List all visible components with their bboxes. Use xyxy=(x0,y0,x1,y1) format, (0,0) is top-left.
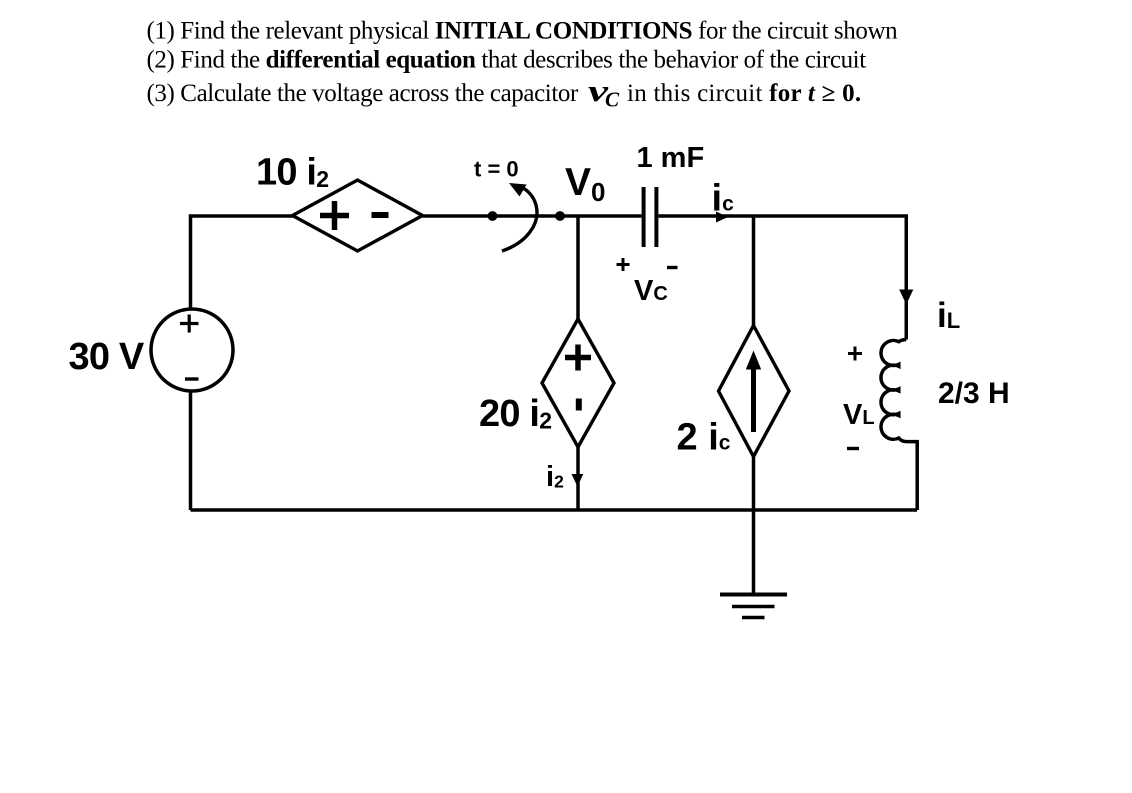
F1 arrow shaft xyxy=(751,368,756,432)
V1 minus sign xyxy=(185,377,199,380)
bottom wire xyxy=(191,508,918,512)
wire top-left corner and left wire upper xyxy=(191,216,295,308)
wire below E2 xyxy=(576,447,580,510)
switch arc t=0 xyxy=(502,187,537,252)
capacitor polarity minus xyxy=(667,266,678,269)
ground bar 3 xyxy=(742,616,765,620)
wire top right segment xyxy=(659,216,907,340)
ground bar 2 xyxy=(732,605,775,609)
current arrow ic on top wire xyxy=(716,212,728,223)
switch arrowhead xyxy=(509,183,527,197)
ground bar 1 xyxy=(720,593,787,597)
node dot V0 xyxy=(555,211,565,221)
wire top middle xyxy=(423,214,642,218)
independent voltage source V1 30 V xyxy=(151,309,233,391)
branch wire to 2ic source xyxy=(752,216,756,326)
math symbol vC xyxy=(588,74,620,111)
node dot A xyxy=(488,211,498,221)
svg-text:t = 0: t = 0 xyxy=(474,157,519,182)
svg-text:30 V: 30 V xyxy=(69,336,145,378)
ground stub wire xyxy=(752,510,756,594)
svg-text:in this circuit for t ≥ 0.: in this circuit for t ≥ 0. xyxy=(627,80,861,107)
E2 plus sign xyxy=(565,345,591,371)
current arrow iL on right wire xyxy=(899,290,913,305)
branch wire to 20i2 source xyxy=(576,216,580,320)
inductor polarity minus xyxy=(847,447,859,450)
svg-text:C: C xyxy=(605,88,620,112)
V1 plus sign xyxy=(180,315,199,333)
E1 minus sign xyxy=(372,212,389,218)
E2 minus bar xyxy=(576,399,582,411)
wire below F1 xyxy=(752,457,756,511)
svg-text:2/3 H: 2/3 H xyxy=(938,377,1010,410)
current arrow i2 xyxy=(572,474,584,487)
F1 arrowhead xyxy=(746,351,761,370)
left wire lower xyxy=(189,392,193,511)
capacitor C1 left plate xyxy=(642,187,646,247)
svg-text:(1) Find the relevant physical: (1) Find the relevant physical INITIAL C… xyxy=(147,18,899,45)
inductor polarity plus xyxy=(848,347,862,361)
svg-text:(3) Calculate the voltage acro: (3) Calculate the voltage across the cap… xyxy=(147,80,579,107)
E1 plus sign xyxy=(320,201,349,230)
dependent voltage source E2 20 i2 (diamond) xyxy=(542,319,614,447)
capacitor C1 right plate xyxy=(654,187,658,247)
capacitor polarity plus xyxy=(617,258,630,271)
svg-text:(2) Find the differential equa: (2) Find the differential equation that … xyxy=(147,47,867,74)
inductor L1 coil xyxy=(881,340,917,511)
svg-text:1 mF: 1 mF xyxy=(637,142,705,174)
dependent current source F1 2 ic (diamond) xyxy=(719,326,790,457)
dependent voltage source E1 10 i2 (diamond) xyxy=(293,180,423,251)
